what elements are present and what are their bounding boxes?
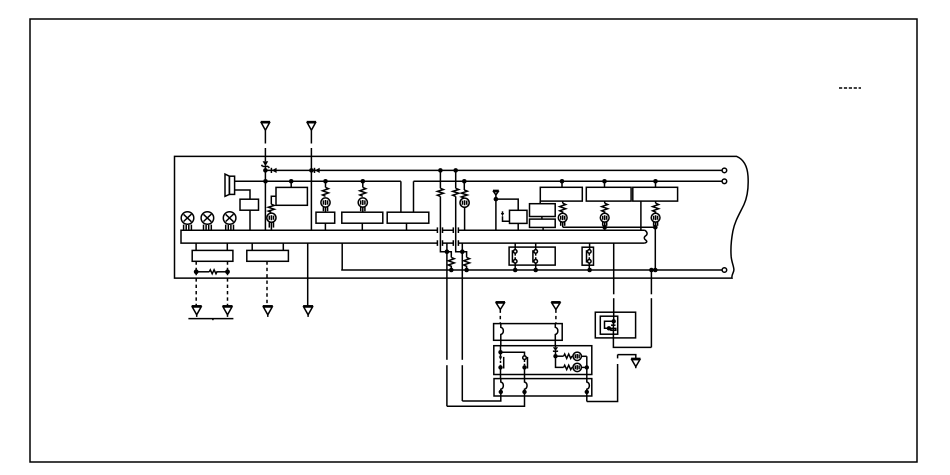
junction box C2 [494, 346, 592, 375]
RB1 feed stub [561, 181, 563, 187]
supply row wire y=170.4 [265, 169, 722, 171]
sensor box A [192, 250, 233, 261]
node dot wire270 right [649, 268, 654, 273]
relay box RL2 [582, 247, 593, 265]
node dot V1 [445, 249, 450, 254]
stub RB1 to SU [539, 201, 541, 203]
RL1 switch S2 [533, 250, 538, 264]
C2 wire left exit [500, 367, 502, 374]
dashed leads below box A [196, 261, 227, 272]
wire row2 to R4 [463, 181, 465, 190]
mini coil loop [605, 321, 616, 330]
C2 wire mid exit [524, 367, 526, 374]
node dot RB1 feed [560, 179, 565, 184]
wire node to bus [495, 199, 497, 230]
box SB stub to bus [517, 223, 519, 230]
amplifier box stub to bus [249, 210, 251, 230]
RL2 stub from bus [589, 243, 591, 250]
node dot wire270/L3 [449, 268, 454, 273]
links C1 to C2 [501, 340, 556, 345]
node dot motor column 362 [361, 179, 366, 184]
wire column node B (x=311.5) [310, 156, 312, 230]
connector triangle T4 [303, 306, 313, 317]
C3c wire to T7 [586, 392, 588, 402]
resistor R9 (horizontal) [556, 354, 572, 358]
resistor R10 (horizontal) [564, 365, 572, 369]
connector triangle T2 [223, 306, 233, 317]
main ECU block outline with torn right edge [175, 156, 749, 278]
RB3 feed stub [655, 181, 657, 187]
relay box RB2 [586, 187, 631, 201]
motor M1 feet [269, 222, 273, 230]
motor M6 [600, 211, 609, 222]
wire column node A (x=265.5) [264, 156, 266, 161]
switch S5 contact plate [527, 357, 529, 369]
dashed lead T5 to box C1 [499, 310, 501, 324]
node dot row1/colA [263, 168, 268, 173]
node dot C3c [585, 390, 589, 394]
node dot row1/colB [309, 168, 314, 173]
resistor R8 (horizontal) [196, 270, 227, 274]
resistor R2 (vertical) [323, 187, 329, 196]
diode D3 [315, 168, 320, 173]
inductor L1 [437, 188, 443, 196]
motor M2 [321, 198, 330, 207]
C2 wire left [500, 346, 502, 353]
lamp B3 [223, 212, 236, 225]
RL2 switch S3 [587, 250, 592, 264]
actuator outer box [595, 312, 635, 338]
switch S4 dashed actuator [500, 361, 502, 366]
actuator return loop [613, 321, 651, 347]
sensor box B [247, 250, 289, 261]
bus stub to node V2 [461, 243, 463, 252]
box B stubs to bus [252, 243, 283, 250]
resistor R6 (vertical) [602, 201, 608, 212]
node dot return wire [653, 268, 658, 273]
node dot C3b [522, 390, 526, 394]
C3 pin hook c [587, 379, 590, 392]
node dot RL2 [587, 268, 592, 273]
relay box RL1 [509, 247, 555, 265]
wire from triangle top 2 [310, 130, 312, 156]
RL1 switch S1 [512, 250, 517, 264]
ground wire y=270 [341, 269, 722, 271]
node dot C3a [499, 390, 503, 394]
motor M4 wire to bus [464, 207, 466, 230]
relay box RB3 [633, 187, 678, 201]
node dot res wire left [194, 269, 199, 274]
dropper column x=613.7 [613, 243, 615, 321]
shield underline [188, 319, 233, 321]
resistor R1 (vertical) [268, 204, 274, 212]
box A stubs to bus [196, 243, 227, 250]
bus bar (long rectangle with torn right end) [181, 230, 647, 243]
switch S4 arrow [499, 352, 502, 360]
speaker SP1 [225, 174, 235, 196]
node dot row2/colA [263, 179, 268, 184]
resistor R4 (vertical) [461, 190, 467, 198]
box K1 stub to bus [324, 223, 326, 230]
node dot res wire right [225, 269, 230, 274]
terminal circle row2 [722, 179, 727, 184]
C2 right feed wire [555, 346, 557, 348]
node dot C2d [553, 354, 557, 358]
wire row2 to R3 [362, 181, 364, 187]
dashed lead to triangle T2 [227, 272, 229, 306]
switch S5 dashed actuator [524, 360, 526, 366]
connector column V1 through bus [440, 196, 447, 251]
box K1 [316, 212, 335, 223]
RL1 stubs to wire270 [515, 263, 536, 270]
motor M3 feet [361, 207, 365, 212]
motor M5 feet [561, 222, 565, 227]
signal row wire y=180.8 [235, 180, 723, 182]
inductor L3 branch [447, 252, 454, 270]
node dot mini coil top [612, 319, 616, 323]
lamp B3 feet [226, 225, 234, 231]
box SL lower [530, 219, 556, 227]
diode D4 [553, 347, 558, 356]
connector column V2 through bus [456, 196, 463, 251]
bus connector ticks [437, 227, 458, 246]
motor M3 [358, 198, 367, 207]
diode D2 [271, 168, 276, 173]
node dot T8 [494, 197, 499, 202]
resistor R3 (vertical) [360, 187, 366, 196]
motor M7 [651, 211, 660, 222]
relay box SB [510, 210, 528, 223]
switch S4 contact plate [503, 357, 505, 369]
motor M6 feet [603, 222, 607, 227]
motor M9 [572, 363, 587, 371]
C3 pin hook a [501, 379, 504, 392]
motor M1 [267, 213, 276, 222]
speaker wire to box [235, 190, 250, 199]
arrow wire into box SB [503, 216, 510, 221]
node dot C2e [585, 365, 589, 369]
connector box C1 [494, 324, 563, 341]
terminal circle row1 [722, 168, 727, 173]
node dot wire270/L4 [464, 268, 469, 273]
stub SL to bus [542, 227, 544, 230]
inductor L4 branch [462, 252, 469, 270]
bus stub to node V1 [446, 243, 448, 252]
dashed lead T6 to box C1 [555, 310, 557, 324]
connector column V1 upper wire [439, 170, 441, 188]
wire node to relay box SB [496, 199, 518, 210]
node dot RL1b [533, 268, 538, 273]
amplifier box [240, 199, 259, 210]
node dot RB2 feed [602, 179, 607, 184]
branch wire lower [556, 356, 564, 367]
actuator inner box [600, 316, 617, 334]
node dot C2c [522, 365, 526, 369]
wire T8 to node [495, 195, 497, 199]
node dot motor column 325 [323, 179, 328, 184]
node dot RL1a [513, 268, 518, 273]
resistor R7 (vertical) [653, 201, 659, 212]
connector triangle T5 [496, 302, 505, 310]
connector triangle T1 [192, 306, 202, 317]
node dot U1 feed [289, 179, 294, 184]
motor M8 [572, 352, 587, 360]
dashed lead to triangle T3 [266, 261, 268, 305]
stub SU-SL [541, 217, 543, 220]
control unit box U1 [276, 187, 307, 205]
node dot V2 [460, 249, 465, 254]
node dot motor column 464 [462, 179, 467, 184]
lamp B1 [181, 212, 194, 225]
wire zener to bus [264, 166, 266, 230]
inductor L2 [453, 188, 459, 196]
connector triangle top 2 [307, 122, 316, 131]
motor M2 feet [323, 207, 327, 212]
node dot connector column V1 [438, 168, 443, 173]
node dot connector column V2 [453, 168, 458, 173]
arrow symbol [501, 211, 504, 216]
S4 link bar [501, 352, 525, 356]
wire to triangle T7 [587, 355, 636, 402]
C2 right exit wire [586, 356, 588, 374]
node dot C2b [498, 365, 502, 369]
box K3 stub to bus [406, 223, 408, 230]
legend dashed line [839, 87, 861, 89]
resistor R5 (vertical) [560, 201, 566, 212]
lamp B2 [201, 212, 214, 225]
relay box RB1 [540, 187, 582, 201]
switch S5 contact circle [523, 356, 527, 360]
box K3 feed stubs from row2 [401, 181, 414, 212]
RL2 stub to wire270 [588, 263, 590, 270]
RB3 stub to bus [640, 201, 642, 230]
C3 pin hook b [525, 379, 528, 392]
node dot C2a [498, 350, 502, 354]
wire from triangle top 1 [264, 130, 266, 156]
connector triangle T8 [493, 190, 499, 195]
U1 left hook wire [271, 196, 276, 204]
connector triangle T6 [551, 302, 560, 310]
lamp B2 feet [204, 225, 212, 231]
node dot RB3 feed [653, 179, 658, 184]
connector column V2 upper wire [455, 170, 457, 188]
motor M5 [558, 211, 567, 222]
RB2 feed stub [604, 181, 606, 187]
lead to triangle T4 [307, 243, 309, 305]
C1 pin hook a [501, 324, 504, 341]
return column left 2 [447, 252, 525, 407]
wire row2 to R2 [325, 181, 327, 187]
motor M7 feet [654, 222, 658, 227]
connector box C3 [494, 379, 592, 396]
terminal circle wire270 [722, 268, 727, 273]
lamp B1 feet [184, 225, 192, 231]
node dot return wire corner [653, 225, 658, 230]
connector triangle T7 [631, 358, 640, 368]
connector triangle T3 [263, 306, 273, 317]
box SU upper [530, 204, 556, 217]
dashed lead to triangle T1 [195, 272, 197, 306]
dropper column x=651.4 [650, 270, 652, 347]
node dot mini coil bottom [607, 326, 611, 330]
box K2 stub to bus [361, 223, 363, 230]
U1 feed stub [290, 181, 292, 187]
bus stub to wire270 [341, 243, 343, 270]
RL1 stubs from bus [515, 243, 536, 250]
box K2 [342, 212, 383, 223]
C1 pin hook b [555, 324, 558, 341]
zener diode D1 [262, 161, 270, 168]
box K3 [387, 212, 429, 223]
node dot M6 return [602, 225, 607, 230]
links C2 to C3 [501, 375, 587, 379]
motor M4 [460, 198, 469, 207]
connector triangle top 1 [261, 122, 270, 131]
motor return wire y=227.2 [563, 227, 656, 270]
return column left 1 [462, 252, 501, 401]
